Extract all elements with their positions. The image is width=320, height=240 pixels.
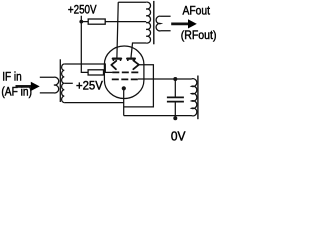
- transformer T1 primary winding: [40, 77, 59, 93]
- svg-text:0V: 0V: [171, 128, 186, 143]
- anode A2 bar: [127, 57, 135, 59]
- svg-text:+250V: +250V: [68, 2, 97, 16]
- resistor R2 (+25V dropper): [88, 70, 103, 75]
- wire capacitor top lead: [174, 79, 176, 97]
- inductor L1 winding: [191, 79, 196, 116]
- wire capacitor bottom lead: [174, 103, 176, 120]
- beam plate left chevron: [111, 61, 116, 69]
- wire R2 to grid 1: [103, 71, 112, 73]
- svg-text:(RFout): (RFout): [181, 28, 217, 42]
- cathode K dot: [122, 86, 126, 90]
- wire IF secondary top to grid 1: [64, 64, 105, 72]
- grid G1 dashes: [112, 71, 138, 73]
- wire grid 2 to choke top: [138, 78, 192, 80]
- transformer T2 core: [153, 1, 155, 44]
- svg-text:+25V: +25V: [76, 78, 103, 92]
- wire right anode to transformer primary bottom: [131, 43, 146, 58]
- wire cathode lead down: [123, 90, 125, 115]
- svg-text:IF in: IF in: [2, 71, 22, 83]
- inductor L1 core: [197, 76, 199, 120]
- wire beam plates to cathode return: [124, 65, 154, 107]
- wire 0V rail: [124, 115, 192, 117]
- IF input arrow: [16, 85, 32, 88]
- wire +250V to R1: [81, 21, 88, 23]
- wire T1 secondary +25V tap: [64, 82, 73, 84]
- wire IF secondary bottom rail: [64, 102, 123, 104]
- transformer T2 secondary winding: [156, 16, 171, 31]
- wire left anode to transformer primary top: [117, 2, 146, 57]
- transformer T1 secondary winding: [62, 64, 65, 103]
- transformer T1 core: [59, 59, 61, 102]
- node junction dot +250V/R1: [79, 20, 83, 24]
- capacitor C1 plates: [167, 97, 184, 101]
- node junction dot capacitor/0V rail: [173, 116, 177, 120]
- grid G2 dashes: [112, 78, 138, 80]
- node junction dot grid2/capacitor: [173, 77, 177, 81]
- AF output arrow: [171, 23, 188, 26]
- anode A1 bar: [113, 57, 121, 59]
- resistor R1 (anode supply): [88, 19, 105, 24]
- beam plate right chevron: [133, 60, 139, 69]
- tube V1 envelope: [104, 46, 143, 99]
- svg-text:(AF in): (AF in): [1, 87, 32, 99]
- svg-text:AFout: AFout: [183, 3, 211, 17]
- wire R1 to transformer centre tap: [105, 21, 146, 23]
- wire +250V lead down to R2: [81, 16, 88, 73]
- transformer T2 primary winding: [146, 2, 150, 43]
